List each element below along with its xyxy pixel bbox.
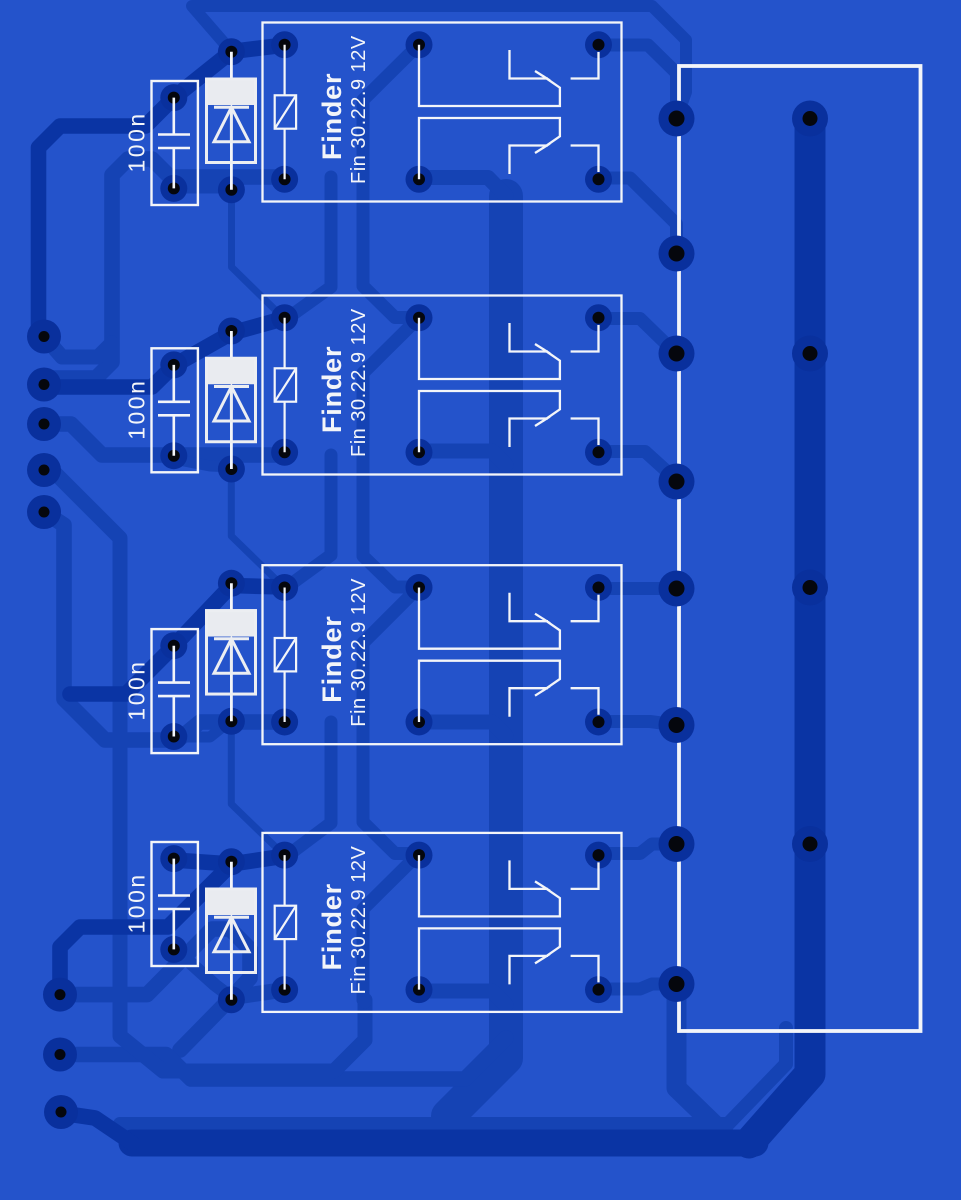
pad Q2 [43,1038,77,1072]
wire: B1 link to relay2 coil [287,177,331,319]
wire: relay2 mid-bottom stub [421,451,506,465]
wire: relay4 mid-bottom stub [421,991,506,1005]
wire: net A3 row diagonal (dark) [70,586,284,695]
wire: bottom medium strand [120,1028,786,1124]
wire: group2 bottom row B2 to pad P3 [44,424,284,455]
wire: relay3 to relay4 mid-top chain [363,587,419,854]
wire: connector pad 8 down to bottom band [677,984,725,1134]
pad P1 [27,320,61,354]
wire: relay1 to relay2 mid-top chain [363,45,419,318]
wire: group1 bottom row B1 to pad P2 [44,159,285,385]
pad Q1 [43,978,77,1012]
wire: group3 bottom row B3 to pad P5 [44,512,284,740]
wire: net A2 row to pad P2 (dark) [44,319,284,388]
wire: relay1 mid-bottom stub [421,178,506,197]
wire: relay3 NC to connector pad 6 [599,722,677,726]
capacitor C4 100n [124,842,198,966]
capacitor C3 100n [124,629,198,753]
relay K3 Finder 30.22.9 12V [263,565,622,744]
wire: pad P1 medium branch [44,337,112,358]
wire: relay4 NC to connector pad 8 [599,984,677,989]
wire: net A4 run to pad Q1 (dark) [60,864,232,995]
wire: relay1 NC to connector pad 2 [599,178,677,254]
wire: group2 bottom row strand to diode [174,459,232,467]
pad P5 [27,495,61,529]
wire: relay2 NO to connector pad 3 [599,319,677,355]
relay K2 Finder 30.22.9 12V [263,296,622,475]
wire: diode2 link to relay3 coil (thin) [231,467,283,587]
wire: net A1 coil supply (dark) [39,45,286,337]
wire: bottom band (dark) [132,1130,755,1157]
wire: diode1 link to relay2 coil (thin) [232,190,285,319]
wire: relay4 NO to connector pad 7 [599,844,677,854]
wire: diode3 link to relay4 coil (thin) [231,719,285,856]
wire: top edge run to connector pad 1 [192,6,686,119]
wire: group3 bottom row strand [174,720,232,737]
pad Q3 [44,1095,78,1129]
wire: relay2 NC to connector pad 4 [599,452,677,481]
pad P4 [27,453,61,487]
diode D2 [207,318,256,483]
wire: relay2 to relay3 mid-top chain [363,318,419,588]
wire: pad Q1 run to group4 [60,929,250,998]
connector pad row (right column) [792,101,828,863]
connector pad row (left column) [659,101,695,1003]
wire: net A4 row (dark) [174,856,285,864]
wire: mid rail vertical (contact commons) [448,196,506,1116]
wire: bottom band end to pad Q3 (dark) [61,1113,132,1143]
relay K4 Finder 30.22.9 12V [263,833,622,1012]
diode D4 [207,848,256,1013]
capacitor C1 100n [124,81,198,205]
wire: group1 bottom row strand [174,182,232,194]
wire: B2 link to relay3 coil [287,455,331,587]
pad P3 [27,407,61,441]
wire: pad Q2 run to mid rail [60,1038,506,1079]
wire: relay3 mid-bottom stub [421,722,506,736]
wire: capacitor C4 bottom link [174,948,232,998]
relay K1 Finder 30.22.9 12V [263,23,622,202]
wire: relay1 NO to connector pad 1 [599,45,677,119]
wire: pad P4 long vertical run and lower jog [44,470,365,1071]
wire: group4 bottom row B4 [180,990,285,1050]
wire: relay4 mid-top chain [363,854,419,1003]
wire: relay3 NO to connector pad 5 [599,582,677,595]
pad P2 [27,368,61,402]
wire: B3 link to relay4 coil [287,722,331,856]
diode D3 [207,570,256,735]
connector outline (terminal block) [679,66,921,1031]
capacitor C2 100n [124,348,198,472]
diode D1 [207,38,256,203]
wire: right column rail down and bottom band (dark) [749,119,810,1144]
